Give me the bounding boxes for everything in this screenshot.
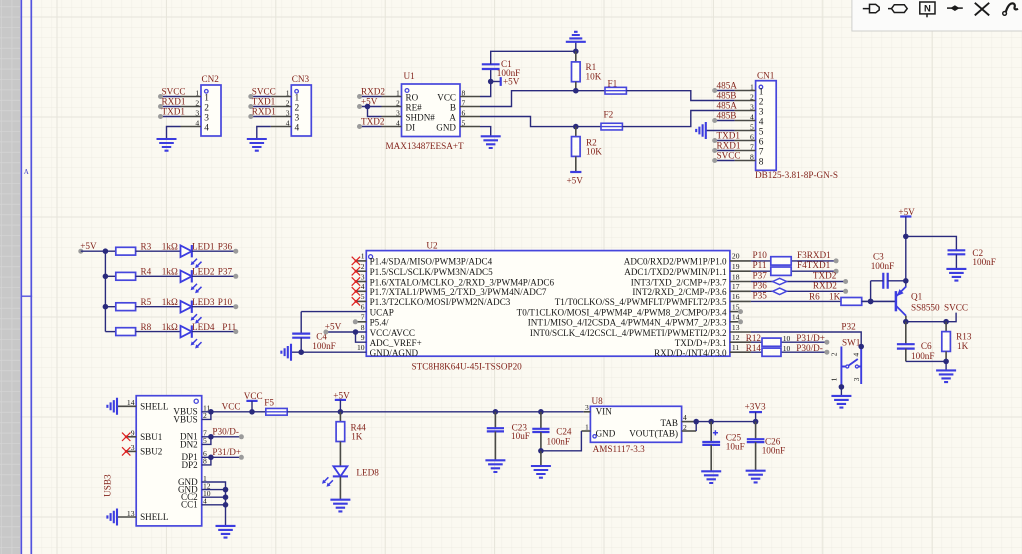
svg-text:TXD1: TXD1 <box>717 130 741 140</box>
svg-text:TXD/D+/P3.1: TXD/D+/P3.1 <box>675 338 727 348</box>
svg-text:P31/D+: P31/D+ <box>796 333 825 343</box>
svg-text:B: B <box>450 102 456 112</box>
svg-text:1kΩ: 1kΩ <box>162 297 178 307</box>
svg-text:3: 3 <box>286 108 290 117</box>
svg-text:A: A <box>449 112 456 122</box>
svg-text:1K: 1K <box>829 291 841 301</box>
svg-text:8: 8 <box>759 157 764 167</box>
svg-text:CN2: CN2 <box>202 74 220 84</box>
svg-text:VIN: VIN <box>596 407 613 417</box>
svg-text:P30/D-: P30/D- <box>212 426 239 436</box>
svg-text:ADC_VREF+: ADC_VREF+ <box>370 338 422 348</box>
svg-text:4: 4 <box>361 282 365 291</box>
svg-text:P1.6/XTALO/MCLKO_2/RXD_3/PWM4P: P1.6/XTALO/MCLKO_2/RXD_3/PWM4P/ADC6 <box>370 277 555 287</box>
svg-text:7: 7 <box>361 313 365 322</box>
svg-text:100nF: 100nF <box>547 437 571 447</box>
svg-text:1: 1 <box>759 87 764 97</box>
svg-text:P1.5/SCL/SCLK/PWM3N/ADC5: P1.5/SCL/SCLK/PWM3N/ADC5 <box>370 267 493 277</box>
svg-text:1kΩ: 1kΩ <box>162 267 178 277</box>
svg-text:SVCC: SVCC <box>162 87 186 97</box>
svg-text:3: 3 <box>759 107 764 117</box>
svg-text:U1: U1 <box>404 71 416 81</box>
svg-text:3: 3 <box>750 102 754 111</box>
svg-text:100nF: 100nF <box>762 446 786 456</box>
svg-text:10uF: 10uF <box>726 441 745 451</box>
svg-text:3: 3 <box>852 377 861 381</box>
svg-text:RXD1: RXD1 <box>252 107 276 117</box>
svg-text:1kΩ: 1kΩ <box>162 322 178 332</box>
svg-text:LED2: LED2 <box>192 267 215 277</box>
svg-text:4: 4 <box>683 413 687 422</box>
svg-text:18: 18 <box>732 272 740 281</box>
svg-text:+5V: +5V <box>503 77 520 87</box>
svg-text:RXD1: RXD1 <box>717 140 741 150</box>
svg-text:100nF: 100nF <box>312 341 336 351</box>
svg-text:1: 1 <box>830 377 839 381</box>
svg-text:5: 5 <box>750 122 754 131</box>
svg-text:R6: R6 <box>809 291 820 301</box>
svg-text:485A: 485A <box>717 100 738 110</box>
svg-text:VCC: VCC <box>244 391 263 401</box>
svg-text:3: 3 <box>204 113 209 123</box>
svg-text:VCC: VCC <box>437 92 456 102</box>
svg-text:F3RXD1: F3RXD1 <box>797 250 831 260</box>
svg-text:VCC: VCC <box>222 402 241 412</box>
svg-text:P5.4/: P5.4/ <box>370 318 389 328</box>
svg-text:3: 3 <box>195 108 199 117</box>
svg-text:100nF: 100nF <box>911 351 935 361</box>
svg-text:R8: R8 <box>141 322 152 332</box>
svg-text:1: 1 <box>396 88 400 97</box>
svg-text:2: 2 <box>286 98 290 107</box>
svg-text:RXD2: RXD2 <box>813 280 837 290</box>
svg-text:1: 1 <box>361 252 365 261</box>
svg-text:RXD2: RXD2 <box>361 86 385 96</box>
svg-text:CN1: CN1 <box>757 71 775 81</box>
svg-text:1: 1 <box>750 82 754 91</box>
svg-text:F5: F5 <box>264 397 274 407</box>
svg-text:ADC1/TXD2/PWMIN/P1.1: ADC1/TXD2/PWMIN/P1.1 <box>624 267 726 277</box>
svg-text:3: 3 <box>361 272 365 281</box>
svg-text:6: 6 <box>361 302 365 311</box>
svg-text:P37: P37 <box>753 271 768 281</box>
svg-text:2: 2 <box>750 92 754 101</box>
svg-text:SBU1: SBU1 <box>140 432 162 442</box>
svg-text:F1: F1 <box>608 78 618 88</box>
svg-text:LED4: LED4 <box>192 322 215 332</box>
svg-text:4: 4 <box>295 123 300 133</box>
svg-text:5: 5 <box>462 118 466 127</box>
svg-text:15: 15 <box>732 302 740 311</box>
svg-text:TXD2: TXD2 <box>813 271 837 281</box>
svg-text:U8: U8 <box>592 396 604 406</box>
svg-text:2: 2 <box>830 352 839 356</box>
svg-text:13: 13 <box>732 323 740 332</box>
svg-text:TXD2: TXD2 <box>361 116 385 126</box>
svg-text:P1.4/SDA/MISO/PWM3P/ADC4: P1.4/SDA/MISO/PWM3P/ADC4 <box>370 257 493 267</box>
svg-text:10K: 10K <box>586 147 602 157</box>
svg-text:R3: R3 <box>141 241 152 251</box>
svg-text:P30/D-: P30/D- <box>796 343 823 353</box>
svg-text:DP2: DP2 <box>182 460 199 470</box>
svg-text:4: 4 <box>750 112 754 121</box>
svg-text:485B: 485B <box>717 110 737 120</box>
svg-text:RE#: RE# <box>406 102 423 112</box>
svg-text:4: 4 <box>759 117 764 127</box>
svg-text:VOUT(TAB): VOUT(TAB) <box>629 428 678 438</box>
svg-text:2: 2 <box>396 98 400 107</box>
svg-text:RXD/D-/INT4/P3.0: RXD/D-/INT4/P3.0 <box>654 348 727 358</box>
svg-text:7: 7 <box>462 98 466 107</box>
svg-text:4: 4 <box>204 123 209 133</box>
svg-text:T1/T0CLKO/SS_4/PWMFLT/PWMFLT2/: T1/T0CLKO/SS_4/PWMFLT/PWMFLT2/P3.5 <box>555 297 727 307</box>
svg-text:12: 12 <box>732 333 740 342</box>
svg-text:P11: P11 <box>753 260 767 270</box>
svg-text:CN3: CN3 <box>292 74 310 84</box>
svg-text:U2: U2 <box>426 240 438 250</box>
svg-text:5: 5 <box>361 292 365 301</box>
svg-text:INT0/SCLK_4/I2CSCL_4/PWMETI/PW: INT0/SCLK_4/I2CSCL_4/PWMETI/PWMETI2/P3.2 <box>530 328 727 338</box>
svg-text:SHDN#: SHDN# <box>406 112 436 122</box>
svg-text:1K: 1K <box>351 432 363 442</box>
svg-text:GND/AGND: GND/AGND <box>370 348 419 358</box>
svg-text:2: 2 <box>295 103 300 113</box>
svg-text:10: 10 <box>783 344 791 353</box>
svg-text:7: 7 <box>750 142 754 151</box>
svg-text:VCC/AVCC: VCC/AVCC <box>370 328 415 338</box>
svg-text:P11: P11 <box>222 322 236 332</box>
svg-text:P1.7/XTAL1/PWM5_2/TXD_3/PWM4N/: P1.7/XTAL1/PWM5_2/TXD_3/PWM4N/ADC7 <box>370 287 547 297</box>
svg-text:N: N <box>924 4 931 15</box>
svg-text:10K: 10K <box>586 71 602 81</box>
svg-text:R4: R4 <box>141 267 152 277</box>
svg-text:3: 3 <box>396 108 400 117</box>
svg-text:2: 2 <box>361 262 365 271</box>
svg-text:P36: P36 <box>753 280 768 290</box>
svg-text:100nF: 100nF <box>972 257 996 267</box>
svg-text:DI: DI <box>406 122 416 132</box>
svg-text:1: 1 <box>204 93 209 103</box>
svg-text:SHELL: SHELL <box>140 512 169 522</box>
svg-text:INT3/TXD_2/CMP+/P3.7: INT3/TXD_2/CMP+/P3.7 <box>631 277 727 287</box>
svg-text:11: 11 <box>732 343 740 352</box>
svg-text:1: 1 <box>295 93 300 103</box>
svg-text:P31/D+: P31/D+ <box>212 447 241 457</box>
svg-text:20: 20 <box>732 252 740 261</box>
svg-text:VBUS: VBUS <box>173 414 197 424</box>
svg-text:SHELL: SHELL <box>140 401 169 411</box>
svg-text:TXD1: TXD1 <box>252 97 276 107</box>
svg-text:C24: C24 <box>556 426 572 436</box>
svg-text:CC1: CC1 <box>181 500 198 510</box>
svg-text:P10: P10 <box>753 250 768 260</box>
svg-text:P1.3/T2CLKO/MOSI/PWM2N/ADC3: P1.3/T2CLKO/MOSI/PWM2N/ADC3 <box>370 297 511 307</box>
svg-text:LED1: LED1 <box>192 241 215 251</box>
svg-text:ADC0/RXD2/PWM1P/P1.0: ADC0/RXD2/PWM1P/P1.0 <box>624 257 727 267</box>
svg-text:Q1: Q1 <box>911 291 923 301</box>
svg-text:1K: 1K <box>957 341 969 351</box>
svg-text:1: 1 <box>286 88 290 97</box>
svg-text:SVCC: SVCC <box>944 302 968 312</box>
svg-text:P35: P35 <box>753 290 768 300</box>
svg-text:8: 8 <box>361 323 365 332</box>
svg-text:9: 9 <box>361 333 365 342</box>
svg-text:14: 14 <box>732 313 740 322</box>
svg-text:C6: C6 <box>921 341 932 351</box>
svg-text:P37: P37 <box>218 267 233 277</box>
svg-text:3: 3 <box>585 403 589 412</box>
svg-text:6: 6 <box>462 108 466 117</box>
svg-text:7: 7 <box>759 147 764 157</box>
svg-text:3: 3 <box>295 113 300 123</box>
svg-text:+5V: +5V <box>567 175 584 185</box>
svg-text:AMS1117-3.3: AMS1117-3.3 <box>593 444 646 454</box>
svg-text:19: 19 <box>732 262 740 271</box>
svg-text:R5: R5 <box>141 297 152 307</box>
svg-text:GND: GND <box>596 428 616 438</box>
svg-text:6: 6 <box>750 132 754 141</box>
svg-text:F4TXD1: F4TXD1 <box>797 260 831 270</box>
svg-text:SS8550: SS8550 <box>911 302 940 312</box>
svg-text:DN2: DN2 <box>180 439 198 449</box>
svg-text:P36: P36 <box>218 241 233 251</box>
svg-text:SBU2: SBU2 <box>140 447 163 457</box>
svg-text:2: 2 <box>195 98 199 107</box>
svg-text:MAX13487EESA+T: MAX13487EESA+T <box>386 141 465 151</box>
svg-text:4: 4 <box>851 353 860 357</box>
svg-text:2: 2 <box>759 97 764 107</box>
svg-text:F2: F2 <box>604 110 614 120</box>
svg-text:1kΩ: 1kΩ <box>162 241 178 251</box>
svg-text:485A: 485A <box>717 80 738 90</box>
svg-text:UCAP: UCAP <box>370 307 394 317</box>
svg-text:P10: P10 <box>218 297 233 307</box>
svg-text:+5V: +5V <box>325 321 342 331</box>
svg-text:10: 10 <box>783 334 791 343</box>
svg-text:R14: R14 <box>746 343 762 353</box>
svg-text:SW1: SW1 <box>842 337 861 347</box>
svg-text:1: 1 <box>195 88 199 97</box>
svg-text:8: 8 <box>462 88 466 97</box>
svg-text:10: 10 <box>357 343 365 352</box>
svg-text:T0/T1CLKO/MOSI_4/PWM4P_4/PWM8_: T0/T1CLKO/MOSI_4/PWM4P_4/PWM8_2/CMPO/P3.… <box>517 307 727 317</box>
svg-text:8: 8 <box>750 152 754 161</box>
svg-text:1: 1 <box>585 423 589 432</box>
svg-text:485B: 485B <box>717 90 737 100</box>
svg-text:+3V3: +3V3 <box>745 402 766 412</box>
svg-text:5: 5 <box>759 127 764 137</box>
svg-text:6: 6 <box>759 137 764 147</box>
svg-text:INT2/RXD_2/CMP-/P3.6: INT2/RXD_2/CMP-/P3.6 <box>632 287 727 297</box>
svg-text:4: 4 <box>396 118 400 127</box>
svg-text:16: 16 <box>732 292 740 301</box>
svg-text:RO: RO <box>406 92 419 102</box>
svg-text:DB125-3.81-8P-GN-S: DB125-3.81-8P-GN-S <box>755 170 838 180</box>
svg-text:LED8: LED8 <box>356 468 379 478</box>
svg-text:TXD1: TXD1 <box>162 107 186 117</box>
svg-text:4: 4 <box>286 118 290 127</box>
svg-text:SVCC: SVCC <box>717 150 741 160</box>
svg-text:GND: GND <box>436 122 456 132</box>
svg-text:2: 2 <box>683 423 687 432</box>
svg-text:100nF: 100nF <box>497 68 521 78</box>
svg-text:USB3: USB3 <box>103 474 113 497</box>
svg-text:STC8H8K64U-45I-TSSOP20: STC8H8K64U-45I-TSSOP20 <box>412 362 523 372</box>
svg-text:RXD1: RXD1 <box>162 97 186 107</box>
svg-text:TAB: TAB <box>661 418 678 428</box>
svg-text:SVCC: SVCC <box>252 87 276 97</box>
svg-text:INT1/MISO_4/I2CSDA_4/PWM4N_4/P: INT1/MISO_4/I2CSDA_4/PWM4N_4/PWM7_2/P3.3 <box>528 318 727 328</box>
svg-text:R12: R12 <box>746 333 762 343</box>
svg-text:4: 4 <box>195 118 199 127</box>
svg-text:17: 17 <box>732 282 740 291</box>
svg-text:10uF: 10uF <box>511 431 530 441</box>
svg-text:2: 2 <box>204 103 209 113</box>
svg-text:A: A <box>24 168 29 176</box>
svg-text:+5V: +5V <box>80 241 97 251</box>
svg-text:P32: P32 <box>841 321 856 331</box>
svg-text:LED3: LED3 <box>192 297 215 307</box>
svg-text:100nF: 100nF <box>871 261 895 271</box>
